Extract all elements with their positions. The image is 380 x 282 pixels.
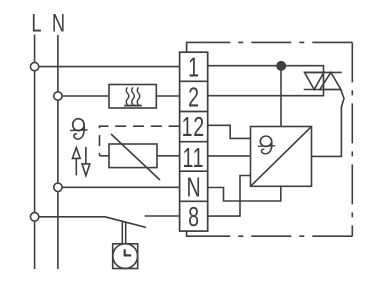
svg-text:2: 2 [188, 82, 199, 113]
wire L to terminal 1 [35, 66, 180, 68]
svg-text:11: 11 [183, 143, 205, 174]
arrow down [82, 147, 90, 176]
wire L to switch [35, 216, 105, 218]
sensor theta label [70, 119, 88, 139]
controller U1 [251, 127, 312, 187]
terminal divider 1/2 [180, 80, 208, 82]
terminal divider 12/11 [180, 141, 208, 143]
enclosure stub top [187, 42, 208, 52]
triac V1 [304, 72, 342, 89]
sensor R (floor sensor) [109, 134, 160, 180]
node on N (terminal N) [54, 183, 62, 191]
terminal block outline [180, 52, 208, 231]
wire junction to controller [280, 66, 282, 127]
wire terminal 11 to controller [208, 155, 251, 157]
node on N (heater) [54, 92, 62, 100]
junction dot [277, 62, 285, 70]
wire dashed lead to sensor [100, 155, 110, 157]
enclosure border right (dash-dot) [351, 42, 353, 236]
svg-text:1: 1 [188, 52, 199, 83]
wire heater to terminal 2 [156, 95, 179, 97]
wire terminal N to controller [208, 186, 281, 201]
node on L (switch) [30, 213, 38, 221]
wire N to terminal N [58, 186, 180, 188]
wire L line [34, 35, 36, 270]
svg-text:N: N [187, 172, 201, 203]
gate wire triac to controller [312, 90, 345, 157]
wire terminal 12 to controller [208, 125, 251, 138]
wire terminal 8 to controller [208, 176, 251, 217]
mechanical link to clock [122, 221, 125, 244]
controller theta symbol [258, 136, 276, 154]
node on L (top) [30, 62, 38, 70]
enclosure border top (dash-dot) [208, 41, 353, 43]
controller box [251, 127, 312, 187]
enclosure stub bottom [187, 231, 208, 236]
clock P1 [113, 244, 138, 269]
terminal divider 2/12 [180, 111, 208, 113]
wire terminal 1 to triac [208, 66, 324, 96]
terminal divider 11/N [180, 170, 208, 172]
enclosure border bottom (dash-dot) [208, 235, 353, 237]
switch S1 (time switch contact) [105, 217, 146, 228]
dashed sensor lead from terminal 12 [100, 126, 180, 156]
svg-text:N: N [52, 8, 65, 37]
svg-text:12: 12 [182, 111, 205, 142]
terminal divider N/8 [180, 200, 208, 202]
svg-text:L: L [31, 8, 41, 37]
wire N line [57, 35, 59, 269]
wire sensor to terminal 11 [157, 155, 180, 157]
controller diagonal [251, 127, 312, 187]
wire N to heater [58, 95, 109, 97]
arrow up [72, 148, 80, 176]
heater E1 [109, 85, 156, 109]
svg-text:8: 8 [188, 202, 199, 233]
wire switch to terminal 8 [145, 215, 180, 217]
